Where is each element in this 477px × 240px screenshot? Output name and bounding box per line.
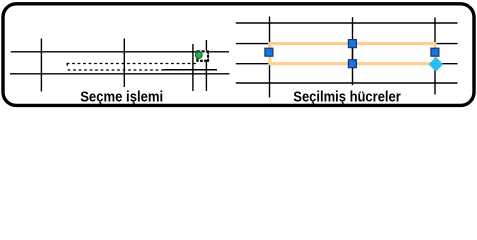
selection marquee solid bottom segment: [164, 69, 218, 71]
svg-text:Seçilmiş hücreler: Seçilmiş hücreler: [293, 88, 401, 105]
wire: right table vertical line 3: [434, 17, 436, 94]
outer rounded border: [3, 4, 474, 106]
selection marquee dashed bottom: [68, 69, 164, 71]
handle: bottom-middle blue square: [348, 60, 356, 68]
wire: left table bottom horizontal line: [10, 73, 229, 75]
cursor icon dashed square: [197, 51, 208, 60]
wire: left table vertical tick 4: [205, 40, 207, 91]
wire: right table horizontal line 3: [236, 63, 458, 65]
wire: right table horizontal line 2: [236, 43, 458, 45]
wire: left table vertical tick 3: [192, 44, 194, 91]
handle: top-middle blue square: [348, 40, 356, 48]
cursor icon green dot: [196, 52, 203, 59]
handle: left-middle blue square: [265, 48, 273, 56]
wire: left table top horizontal line: [11, 51, 229, 53]
handle: right-middle blue square: [431, 48, 439, 56]
wire: right table vertical line 2: [352, 17, 354, 85]
svg-text:Seçme işlemi: Seçme işlemi: [80, 88, 163, 105]
wire: left table vertical tick 2: [123, 39, 125, 88]
selection marquee dashed top: [67, 63, 196, 65]
wire: right table vertical line 1: [269, 17, 271, 98]
selection marquee dashed left corner: [66, 63, 68, 67]
cursor icon white backing: [196, 50, 209, 62]
wire: left table vertical tick 1: [40, 39, 42, 92]
wire: right table horizontal line 4: [236, 82, 458, 84]
handle: bottom-right cyan diamond: [429, 57, 444, 72]
wire: middle vertical inside selection (black over orange): [352, 45, 354, 62]
selection highlight orange rectangle: [270, 44, 435, 64]
wire: right table horizontal line 1: [236, 22, 458, 24]
